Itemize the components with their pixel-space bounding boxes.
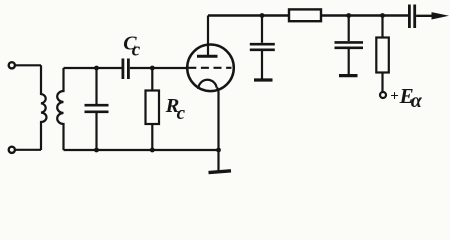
node Rc top: [150, 66, 155, 71]
capacitor C4 output coupling: [409, 5, 414, 29]
wire anode top rail: [208, 14, 289, 16]
wire input bottom: [15, 149, 41, 151]
triode V1 cathode: [198, 80, 216, 89]
ground: [209, 150, 232, 173]
triode V1 anode plate: [197, 55, 218, 58]
terminal +Ea: [380, 92, 386, 98]
inductor L2 secondary winding: [57, 68, 63, 150]
svg-text:c: c: [177, 103, 186, 124]
triode V1 cathode lead: [217, 88, 219, 150]
svg-text:α: α: [411, 90, 423, 112]
wire top rail right: [321, 14, 408, 16]
capacitor tank C1: [85, 68, 109, 150]
input terminal bottom: [9, 147, 15, 153]
resistor R1 filter: [289, 9, 321, 21]
resistor R2 dropping: [376, 16, 389, 93]
node R2 top: [380, 13, 385, 18]
resistor Rc: [146, 68, 160, 150]
label +Ea: [390, 84, 423, 112]
inductor L1 primary winding: [41, 65, 47, 150]
capacitor C3 bypass: [335, 16, 364, 76]
capacitor Cc coupling: [123, 59, 128, 80]
capacitor C2 bypass: [250, 16, 275, 81]
svg-text:+: +: [390, 89, 399, 105]
wire Cc to grid: [130, 67, 188, 69]
node tank bottom: [94, 148, 99, 153]
label Rc: [165, 95, 186, 124]
node tank top: [94, 66, 99, 71]
node cathode: [216, 148, 221, 153]
node C2 top: [260, 13, 265, 18]
wire output: [416, 15, 434, 17]
svg-text:c: c: [132, 39, 141, 60]
arrow output: [432, 12, 450, 19]
node C3 top: [346, 13, 351, 18]
label Cc: [123, 32, 141, 60]
node Rc bottom: [150, 148, 155, 153]
triode V1 anode lead: [207, 16, 209, 56]
wire bottom rail: [64, 149, 219, 151]
triode V1 grid: [188, 67, 231, 69]
wire grid rail left: [64, 67, 122, 69]
input terminal top: [9, 62, 15, 68]
triode V1 envelope: [187, 45, 234, 92]
wire input top: [15, 64, 41, 66]
